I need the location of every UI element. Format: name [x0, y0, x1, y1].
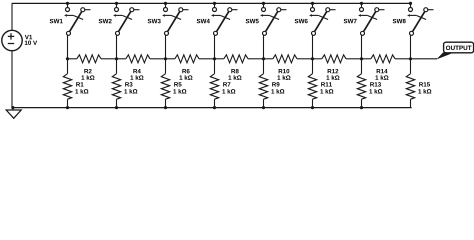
label R11 1 k&#937; — [320, 82, 333, 93]
node top-rail junction col 1 — [66, 2, 69, 5]
wire resistor to bottom rail col 2 — [116, 99, 118, 107]
node ground junction — [11, 106, 14, 109]
voltage source V1 10 V — [2, 30, 22, 50]
label R8 1 k&#937; — [228, 69, 241, 80]
wire output node row — [411, 58, 438, 60]
label SW2 — [99, 19, 112, 23]
wire node row lead col 4 — [215, 58, 224, 60]
label R13 1 k&#937; — [369, 82, 382, 93]
resistor R12 (series 1 k&#937;) — [322, 55, 346, 63]
wire node row lead into col 4 — [199, 58, 215, 60]
wire node row lead col 6 — [313, 58, 322, 60]
node bottom-rail junction col 1 — [66, 106, 69, 109]
node ladder junction col 6 — [311, 57, 314, 60]
wire V1 to ground junction — [11, 51, 13, 108]
wire switch common down to node col 1 — [67, 35, 69, 59]
node top-rail junction col 4 — [213, 2, 216, 5]
wire node row lead into col 2 — [101, 58, 117, 60]
resistor R8 (series 1 k&#937;) — [224, 55, 248, 63]
switch SW3 — [162, 3, 188, 35]
label R7 1 k&#937; — [222, 82, 235, 93]
label SW1 — [50, 19, 63, 23]
wire switch common down to node col 3 — [165, 35, 167, 59]
wire node down to resistor col 8 — [410, 59, 412, 74]
node top-rail junction col 5 — [262, 2, 265, 5]
resistor R9 (shunt 1 k&#937;) — [259, 74, 267, 100]
node ladder junction col 1 — [66, 57, 69, 60]
wire node down to resistor col 2 — [116, 59, 118, 74]
wire bottom rail (ground bus) — [13, 107, 412, 109]
label SW7 — [344, 19, 357, 23]
node bottom-rail junction col 7 — [360, 106, 363, 109]
wire resistor to bottom rail col 5 — [263, 99, 265, 107]
wire node row lead into col 8 — [395, 58, 411, 60]
label R12 1 k&#937; — [326, 69, 339, 80]
wire switch common down to node col 4 — [214, 35, 216, 59]
resistor R3 (shunt 1 k&#937;) — [112, 74, 120, 100]
node ladder junction col 3 — [164, 57, 167, 60]
wire node row lead col 2 — [117, 58, 126, 60]
resistor R13 (shunt 1 k&#937;) — [357, 74, 365, 100]
wire resistor to bottom rail col 8 — [410, 99, 412, 107]
label R3 1 k&#937; — [124, 82, 137, 93]
switch SW2 — [113, 3, 139, 35]
wire node row lead into col 5 — [248, 58, 264, 60]
node ladder junction col 5 — [262, 57, 265, 60]
label R6 1 k&#937; — [179, 69, 192, 80]
node bottom-rail junction col 3 — [164, 106, 167, 109]
switch SW7 — [358, 3, 384, 35]
wire resistor to bottom rail col 6 — [312, 99, 314, 107]
node ladder junction col 2 — [115, 57, 118, 60]
wire node row lead col 3 — [166, 58, 175, 60]
label SW4 — [197, 19, 210, 23]
wire node down to resistor col 4 — [214, 59, 216, 74]
node ladder junction col 4 — [213, 57, 216, 60]
resistor R2 (series 1 k&#937;) — [77, 55, 101, 63]
node top-rail junction col 3 — [164, 2, 167, 5]
label SW3 — [148, 19, 161, 23]
label R10 1 k&#937; — [277, 69, 290, 80]
switch SW6 — [309, 3, 335, 35]
wire resistor to bottom rail col 1 — [67, 99, 69, 107]
node bottom-rail junction col 4 — [213, 106, 216, 109]
wire switch common down to node col 6 — [312, 35, 314, 59]
node bottom-rail junction col 2 — [115, 106, 118, 109]
wire node row lead col 7 — [362, 58, 371, 60]
resistor R14 (series 1 k&#937;) — [371, 55, 395, 63]
resistor R7 (shunt 1 k&#937;) — [210, 74, 218, 100]
label SW6 — [295, 19, 308, 23]
wire switch common down to node col 8 — [410, 35, 412, 59]
wire resistor to bottom rail col 4 — [214, 99, 216, 107]
resistor R15 (shunt 1 k&#937;) — [406, 74, 414, 100]
resistor R11 (shunt 1 k&#937;) — [308, 74, 316, 100]
OUTPUT flag — [436, 42, 473, 59]
label SW8 — [393, 19, 406, 23]
wire node down to resistor col 3 — [165, 59, 167, 74]
wire node row lead into col 6 — [297, 58, 313, 60]
label R4 1 k&#937; — [130, 69, 143, 80]
wire switch common down to node col 2 — [116, 35, 118, 59]
label V1 10 V — [25, 35, 37, 45]
resistor R6 (series 1 k&#937;) — [175, 55, 199, 63]
node bottom-rail junction col 6 — [311, 106, 314, 109]
label R14 1 k&#937; — [375, 69, 388, 80]
switch SW5 — [260, 3, 286, 35]
wire resistor to bottom rail col 7 — [361, 99, 363, 107]
label R1 1 k&#937; — [75, 82, 88, 93]
node top-rail junction col 6 — [311, 2, 314, 5]
node bottom-rail junction col 5 — [262, 106, 265, 109]
label R2 1 k&#937; — [81, 69, 94, 80]
wire node down to resistor col 5 — [263, 59, 265, 74]
resistor R1 (shunt 1 k&#937;) — [63, 74, 71, 100]
switch SW1 — [64, 3, 90, 35]
wire resistor to bottom rail col 3 — [165, 99, 167, 107]
switch SW8 — [407, 3, 433, 35]
wire node row lead col 5 — [264, 58, 273, 60]
switch SW4 — [211, 3, 237, 35]
wire node row lead into col 7 — [346, 58, 362, 60]
label R9 1 k&#937; — [271, 82, 284, 93]
wire node row lead into col 3 — [150, 58, 166, 60]
label SW5 — [246, 19, 259, 23]
wire node down to resistor col 1 — [67, 59, 69, 74]
wire top rail (10V bus) — [12, 2, 411, 4]
node top-rail junction col 7 — [360, 2, 363, 5]
resistor R4 (series 1 k&#937;) — [126, 55, 150, 63]
label R15 1 k&#937; — [418, 82, 431, 93]
node top-rail junction col 8 — [409, 2, 412, 5]
resistor R10 (series 1 k&#937;) — [273, 55, 297, 63]
node ladder junction col 8 — [409, 57, 412, 60]
ground — [6, 108, 21, 119]
label R5 1 k&#937; — [173, 82, 186, 93]
wire node down to resistor col 7 — [361, 59, 363, 74]
wire node down to resistor col 6 — [312, 59, 314, 74]
resistor R5 (shunt 1 k&#937;) — [161, 74, 169, 100]
node top-rail junction col 2 — [115, 2, 118, 5]
node ladder junction col 7 — [360, 57, 363, 60]
wire left vertical from top rail to V1 — [11, 3, 13, 30]
wire node row lead col 1 — [68, 58, 77, 60]
wire switch common down to node col 7 — [361, 35, 363, 59]
wire switch common down to node col 5 — [263, 35, 265, 59]
